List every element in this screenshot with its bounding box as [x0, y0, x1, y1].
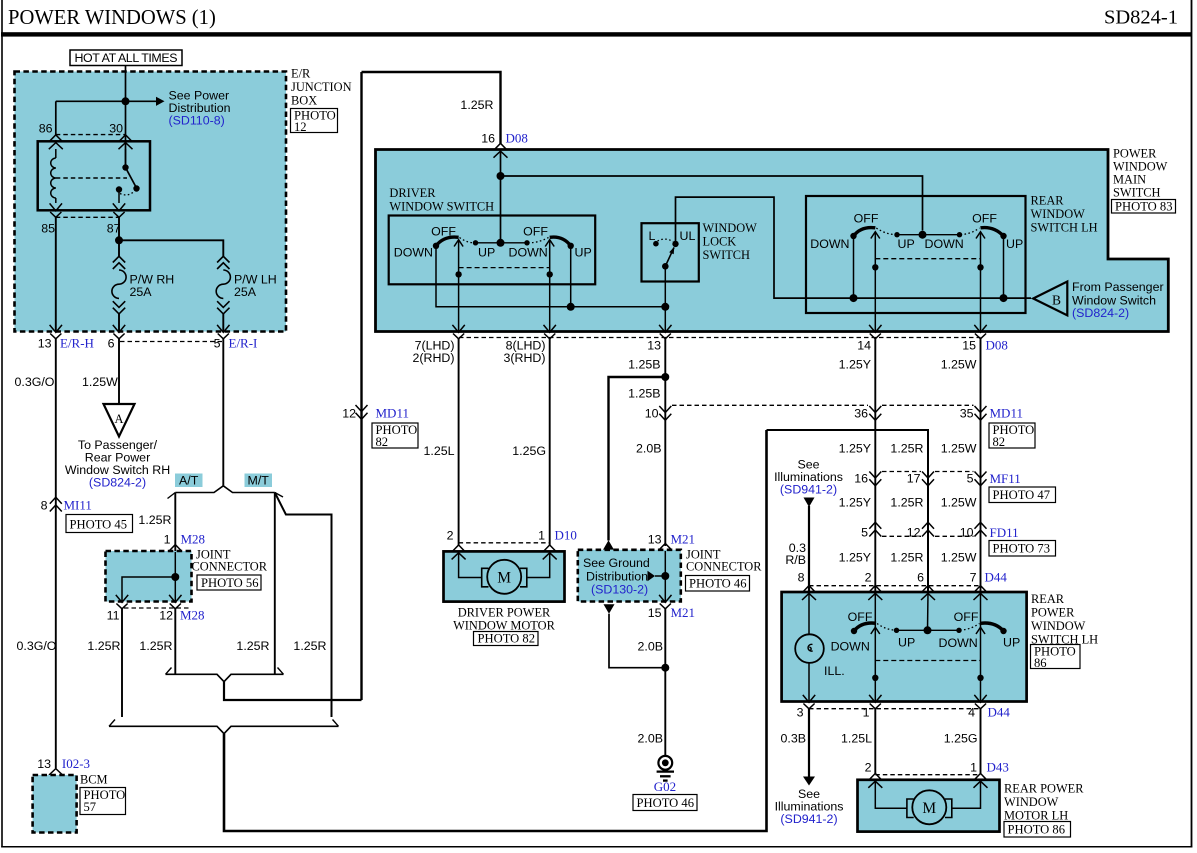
svg-text:2: 2: [447, 529, 454, 543]
wire pin14 column down: [874, 339, 876, 592]
node rear feed: [919, 231, 927, 239]
rear motor pin 1 connector: [974, 773, 988, 787]
driver rocker arrow pin8: [545, 240, 554, 247]
wire into RH fuse: [118, 240, 120, 256]
wire pin6 down to triangle A: [118, 339, 120, 404]
joint connector M21 box (dashed blue): [578, 550, 681, 602]
wire cross link to pin6 column: [767, 430, 929, 592]
dashed connector line main switch pins: [459, 337, 981, 339]
svg-text:6: 6: [917, 571, 924, 585]
svg-text:R/B: R/B: [785, 553, 806, 567]
connector 12 MD11: [356, 405, 368, 419]
driver rocker contact UP: [473, 240, 478, 245]
HOT AT ALL TIMES label box: [70, 50, 182, 66]
svg-text:10: 10: [645, 407, 659, 421]
rear rocker contact UP: [894, 232, 899, 237]
svg-text:E/R-I: E/R-I: [229, 336, 258, 351]
wire M21 pin15 down to ground: [664, 609, 666, 756]
relay lever: [126, 168, 137, 189]
driver rocker right dotted travel: [528, 238, 549, 243]
svg-text:SWITCH: SWITCH: [1113, 186, 1161, 200]
svg-text:8: 8: [798, 571, 805, 585]
svg-text:1.25R: 1.25R: [890, 496, 923, 510]
svg-text:DOWN: DOWN: [810, 237, 849, 251]
fuse P/W RH 25A: [112, 256, 126, 314]
dashed connector line pins 6-5: [120, 341, 222, 343]
svg-text:PHOTO 46: PHOTO 46: [637, 796, 695, 810]
svg-text:WINDOW: WINDOW: [703, 221, 758, 235]
pin 6 connector: [113, 325, 125, 339]
svg-text:7: 7: [970, 571, 977, 585]
wire pin87 down: [118, 217, 120, 241]
lock contact UL: [672, 241, 678, 247]
node fuse split: [115, 236, 123, 244]
svg-text:6: 6: [108, 337, 115, 351]
rear motor wires: [875, 781, 906, 808]
rear power window switch LH box (blue): [782, 592, 1027, 702]
rear rocker arrow pin14: [871, 232, 880, 239]
svg-text:11: 11: [107, 609, 120, 623]
svg-text:CONNECTOR: CONNECTOR: [192, 560, 268, 574]
bus1 hook right: [278, 668, 284, 675]
svg-text:1.25G: 1.25G: [512, 444, 546, 458]
svg-text:12: 12: [907, 526, 921, 540]
svg-text:A/T: A/T: [179, 474, 199, 488]
svg-text:1.25R: 1.25R: [293, 639, 326, 653]
svg-text:86: 86: [1034, 656, 1047, 670]
wire LH fuse to pin 5: [222, 314, 224, 332]
wire pin85 down to pin13: [55, 217, 57, 332]
svg-text:12: 12: [342, 407, 356, 421]
svg-text:JUNCTION: JUNCTION: [291, 80, 352, 94]
wire feed across to rear rocker: [501, 176, 923, 231]
svg-text:1.25W: 1.25W: [941, 442, 977, 456]
M28 internal node: [171, 573, 179, 581]
driver rocker left lever: [436, 237, 459, 246]
rear switch pin 4 connector: [974, 695, 986, 709]
svg-text:10: 10: [960, 526, 974, 540]
wire M/T branch vertical: [274, 493, 276, 675]
svg-text:1.25Y: 1.25Y: [839, 496, 871, 510]
rear motor brackets: [907, 799, 914, 818]
rear rocker arrow pin15: [976, 232, 985, 239]
svg-text:LOCK: LOCK: [703, 235, 737, 249]
svg-text:D08: D08: [506, 131, 528, 146]
svg-text:1.25G: 1.25G: [944, 732, 978, 746]
dashed connector line D10: [459, 542, 550, 544]
svg-text:A: A: [115, 412, 124, 426]
relay internal dashed link: [56, 177, 127, 179]
triangle B from passenger window switch: [1033, 282, 1067, 316]
svg-text:1.25R: 1.25R: [460, 98, 493, 112]
M28 internal wire: [174, 552, 176, 602]
svg-text:PHOTO 73: PHOTO 73: [993, 542, 1051, 556]
page bottom border: [1, 846, 1192, 848]
svg-text:M21: M21: [671, 605, 696, 620]
svg-text:1: 1: [863, 706, 870, 720]
svg-text:G02: G02: [654, 779, 676, 794]
rear rocker dashed link: [875, 258, 980, 260]
svg-text:15: 15: [648, 606, 662, 620]
svg-text:25A: 25A: [234, 285, 257, 299]
svg-text:UP: UP: [1006, 237, 1023, 251]
rear switch pin 8 connector: [802, 586, 816, 600]
photo 46 box G02: [633, 795, 697, 811]
svg-text:2(RHD): 2(RHD): [413, 351, 455, 365]
wire from ground distribution to ground net: [609, 614, 665, 668]
svg-text:PHOTO 82: PHOTO 82: [478, 632, 536, 646]
dashed connector line D43: [875, 774, 980, 776]
wire branch to ground distribution: [609, 377, 666, 541]
svg-text:PHOTO 86: PHOTO 86: [1008, 823, 1066, 837]
svg-text:82: 82: [993, 435, 1006, 449]
node pin8 wire: [547, 271, 553, 277]
fuse P/W LH 25A: [216, 256, 230, 314]
svg-text:UP: UP: [898, 636, 915, 650]
wire pin7 to driver motor: [458, 339, 460, 545]
svg-text:17: 17: [907, 472, 921, 486]
node hot junction: [122, 97, 130, 105]
svg-text:3: 3: [797, 706, 804, 720]
rear2 contact bar: [897, 629, 960, 631]
rear2 rocker left lever: [854, 623, 876, 631]
dashed connector line pins 85-87: [56, 216, 119, 218]
svg-text:L: L: [649, 229, 656, 243]
rear switch pin 7 connector: [974, 586, 988, 600]
svg-text:3(RHD): 3(RHD): [504, 351, 546, 365]
svg-text:OFF: OFF: [972, 212, 997, 226]
driver motor box (blue): [444, 551, 565, 601]
svg-text:E/R-H: E/R-H: [60, 336, 94, 351]
connector 36: [869, 406, 881, 420]
rear2 rocker left contact: [851, 628, 857, 634]
rear rocker left lever: [854, 228, 876, 236]
lamp ILL wire lower: [808, 663, 810, 702]
svg-text:M/T: M/T: [248, 474, 270, 488]
driver window switch inner box: [389, 216, 596, 285]
svg-text:WINDOW MOTOR: WINDOW MOTOR: [453, 619, 555, 633]
main switch pin 8 connector: [544, 325, 556, 339]
rear2 arrow pin1: [871, 627, 880, 634]
svg-text:M28: M28: [181, 532, 206, 547]
svg-text:1.25B: 1.25B: [628, 358, 660, 372]
E/R junction box (dashed blue): [15, 72, 287, 332]
driver motor wires: [459, 553, 482, 578]
M21 internal node: [661, 572, 669, 580]
svg-text:PHOTO 83: PHOTO 83: [1115, 199, 1173, 213]
wire pin2 to pin1: [874, 593, 876, 702]
svg-text:(SD824-2): (SD824-2): [1072, 306, 1129, 320]
svg-text:OFF: OFF: [954, 610, 979, 624]
rear window switch LH inner box: [806, 196, 1026, 313]
lamp ILL wire upper: [808, 593, 810, 635]
svg-text:FD11: FD11: [990, 525, 1019, 540]
svg-text:4: 4: [968, 706, 975, 720]
photo 83 box: [1112, 200, 1176, 214]
svg-text:B: B: [1052, 293, 1061, 308]
wire pin7 to pin4: [980, 593, 982, 702]
node rail rear right: [1000, 294, 1008, 302]
svg-text:WINDOW: WINDOW: [1031, 207, 1086, 221]
connector 13 M21: [658, 543, 672, 557]
svg-text:MOTOR LH: MOTOR LH: [1004, 809, 1068, 823]
dashed connector line D44 top: [809, 585, 981, 587]
node rail rear left: [850, 294, 858, 302]
svg-text:1.25R: 1.25R: [139, 639, 172, 653]
label A/T highlighted: [175, 474, 203, 488]
node rear2 right wire: [977, 675, 983, 681]
svg-text:2.0B: 2.0B: [638, 640, 664, 654]
photo 45 box: [66, 515, 133, 533]
dashed row FD11: [882, 535, 921, 537]
wire pin1 rear to motor: [874, 709, 876, 774]
svg-text:1.25W: 1.25W: [941, 358, 977, 372]
driver rocker right contact: [568, 243, 574, 249]
relay coil: [55, 149, 57, 158]
svg-text:13: 13: [37, 757, 51, 771]
svg-text:From Passenger: From Passenger: [1072, 280, 1164, 294]
svg-text:1.25Y: 1.25Y: [839, 358, 871, 372]
ground symbol G02: [658, 756, 672, 770]
svg-text:DOWN: DOWN: [509, 246, 548, 260]
photo 46 box M21: [686, 576, 750, 592]
svg-text:POWER: POWER: [1113, 147, 1157, 161]
svg-text:1.25L: 1.25L: [423, 444, 454, 458]
wire coil feed down: [55, 101, 57, 135]
svg-text:M28: M28: [180, 608, 205, 623]
wire feed from MD11 riser across top: [362, 72, 501, 144]
svg-text:POWER WINDOWS (1): POWER WINDOWS (1): [8, 7, 216, 29]
rear switch pin 2 connector: [868, 586, 882, 600]
arrow to wire in M21: [648, 571, 656, 581]
wire pin14 down: [874, 232, 876, 332]
photo 73 box: [989, 541, 1056, 557]
svg-text:0.3B: 0.3B: [781, 732, 807, 746]
BCM box (dashed blue): [33, 775, 77, 833]
fork tick right: [275, 493, 283, 498]
fork tick left: [168, 493, 176, 499]
power window relay box: [38, 141, 150, 210]
rear rocker right dotted travel: [961, 228, 980, 235]
svg-text:30: 30: [109, 122, 123, 136]
svg-text:REAR: REAR: [1031, 592, 1065, 606]
svg-text:MF11: MF11: [990, 471, 1021, 486]
wire bus2 down and across bottom: [224, 430, 767, 831]
motor pin 2 connector: [452, 545, 466, 559]
node main feed split: [497, 172, 505, 180]
wire driver DOWN contact to rail: [436, 246, 665, 307]
svg-text:2: 2: [865, 761, 872, 775]
wire driver UP contact to rail: [570, 246, 572, 307]
joint connector M28 box (dashed blue): [106, 551, 192, 602]
rear rocker right contact: [1000, 233, 1006, 239]
dashed connector line pins 86-30: [56, 134, 126, 136]
header thick rule: [1, 32, 1192, 36]
svg-text:OFF: OFF: [854, 212, 879, 226]
svg-text:MD11: MD11: [990, 406, 1023, 421]
dashed row MF11: [882, 471, 921, 473]
node rail driver UP: [567, 303, 575, 311]
driver motor brackets: [482, 568, 489, 587]
svg-text:REAR: REAR: [1031, 194, 1065, 208]
svg-text:PHOTO 56: PHOTO 56: [201, 576, 259, 590]
lamp ILL circle: [795, 634, 824, 663]
svg-text:1.25R: 1.25R: [236, 639, 269, 653]
relay pin 86 connector: [49, 135, 63, 149]
rear switch pin 3 connector: [803, 695, 815, 709]
svg-text:I02-3: I02-3: [62, 756, 90, 771]
connector 5 MF11: [975, 472, 987, 486]
driver rocker arrow pin7: [454, 240, 463, 247]
rear switch pin 1 connector: [869, 695, 881, 709]
svg-text:BOX: BOX: [291, 94, 317, 108]
svg-text:PHOTO 45: PHOTO 45: [70, 518, 128, 532]
svg-text:86: 86: [39, 122, 53, 136]
svg-text:UL: UL: [680, 229, 696, 243]
rear2 rocker right contact: [1000, 628, 1006, 634]
node pin15 wire: [977, 264, 983, 270]
driver rocker contact DOWN: [524, 240, 529, 245]
wire 87 contact to pin: [118, 190, 120, 204]
svg-text:CONNECTOR: CONNECTOR: [686, 560, 762, 574]
rear rocker contact DOWN: [957, 232, 962, 237]
node pin14 wire: [872, 264, 878, 270]
driver rocker left dotted travel: [460, 238, 475, 243]
svg-text:M: M: [497, 570, 511, 587]
main switch pin 15 connector: [974, 325, 986, 339]
svg-text:E/R: E/R: [291, 67, 311, 81]
svg-text:36: 36: [854, 407, 868, 421]
pin 16 D08 connector: [494, 143, 508, 157]
lamp filament: [808, 644, 813, 651]
power window main switch box (blue): [376, 150, 1169, 332]
svg-text:1.25W: 1.25W: [941, 551, 977, 565]
svg-text:BCM: BCM: [80, 773, 108, 787]
wire M28 pin11 down: [121, 609, 123, 717]
svg-text:1.25L: 1.25L: [841, 732, 872, 746]
node driver feed: [497, 239, 505, 247]
wire rear DOWN contact to rail: [853, 236, 855, 298]
page left border: [1, 0, 3, 848]
arrow to power distribution: [156, 97, 165, 106]
driver rocker left contact: [433, 243, 439, 249]
label M/T highlighted: [245, 474, 273, 488]
connector 8 MI11: [50, 497, 62, 511]
M28 pin 12 connector: [169, 595, 181, 609]
dashed connector row 10-36-35: [672, 404, 868, 406]
wire A/T branch down to M28: [174, 493, 176, 552]
svg-text:SWITCH LH: SWITCH LH: [1031, 221, 1098, 235]
svg-text:5: 5: [214, 337, 221, 351]
pin 13 E/R-H connector: [50, 325, 62, 339]
rear2 rocker right dotted travel: [960, 624, 980, 631]
svg-text:UP: UP: [1003, 636, 1020, 650]
photo 86 box switch: [1031, 645, 1081, 669]
svg-text:Distribution: Distribution: [586, 570, 648, 584]
motor pin 1 connector: [543, 545, 557, 559]
relay contact node 87: [116, 186, 122, 192]
bus2 hook left: [109, 720, 115, 727]
wire illuminations to pin 8: [808, 506, 810, 592]
svg-text:WINDOW SWITCH: WINDOW SWITCH: [389, 200, 494, 214]
relay pin 87 connector: [113, 203, 125, 217]
main switch pin 13 connector: [659, 325, 671, 339]
wire pin7 down: [458, 240, 460, 332]
dashed connector line D44 bottom: [809, 708, 981, 710]
rear rocker left contact: [850, 233, 856, 239]
svg-text:DOWN: DOWN: [939, 636, 978, 650]
triangle from ground distribution: [604, 604, 615, 613]
rear2 arrow pin4: [976, 627, 985, 634]
rear2 rocker right lever: [981, 623, 1004, 631]
wire MD11 riser: [360, 72, 362, 700]
BCM fork connector 13 I02-3: [49, 769, 63, 775]
M21 pin 15 connector: [659, 595, 671, 609]
node rail lock switch: [661, 303, 669, 311]
rear2 dashed link: [875, 660, 980, 662]
svg-text:WINDOW: WINDOW: [1004, 795, 1059, 809]
merge bus 1: [166, 674, 284, 681]
wire pin13 main down: [664, 339, 666, 546]
wire contact bar left: [476, 242, 528, 244]
wire 0.3G/O pin13 down to BCM: [55, 339, 57, 769]
svg-text:SWITCH: SWITCH: [703, 248, 751, 262]
connector 10 FD11: [975, 522, 987, 536]
wire RH fuse to pin 6: [118, 314, 120, 332]
rear motor circle M: [912, 790, 946, 824]
photo 82 box right: [989, 423, 1035, 448]
wire to see power distribution arrow: [56, 100, 156, 102]
wire pin16 down to driver rocker centre: [500, 151, 502, 243]
svg-text:PHOTO 47: PHOTO 47: [993, 488, 1051, 502]
svg-text:SD824-1: SD824-1: [1104, 7, 1178, 29]
photo 82 box motor: [474, 632, 539, 646]
wire M/T diagonal branch: [275, 493, 332, 718]
svg-text:1.25R: 1.25R: [87, 639, 120, 653]
wire pin8 to driver motor: [549, 339, 551, 545]
main switch pin 14 connector: [869, 325, 881, 339]
connector 1 M28: [168, 545, 182, 559]
wire pin15 down: [980, 232, 982, 332]
relay pin 30 connector: [119, 135, 133, 149]
svg-text:5: 5: [967, 472, 974, 486]
connector 10: [659, 406, 671, 420]
wire pin4 rear to motor: [980, 709, 982, 774]
wire hot feed into box: [125, 66, 127, 167]
svg-text:16: 16: [481, 132, 495, 146]
svg-text:1.25Y: 1.25Y: [839, 551, 871, 565]
svg-text:12: 12: [159, 609, 173, 623]
svg-text:ILL.: ILL.: [824, 664, 845, 678]
rear2 rocker left dotted travel: [877, 624, 895, 631]
svg-text:15: 15: [962, 339, 976, 353]
lock dotted travel: [658, 239, 674, 241]
svg-text:DRIVER: DRIVER: [389, 186, 436, 200]
photo 47 box: [989, 487, 1056, 503]
svg-text:8: 8: [41, 499, 48, 513]
svg-text:D44: D44: [985, 570, 1008, 585]
M28 pin 11 connector: [116, 595, 128, 609]
svg-text:MI11: MI11: [64, 498, 92, 513]
svg-text:OFF: OFF: [523, 225, 548, 239]
bus2 hook right: [333, 720, 339, 727]
connector 5 FD11: [869, 522, 881, 536]
photo 86 box motor: [1004, 822, 1071, 838]
wire lock common down to rail: [664, 266, 666, 331]
arrow from illuminations: [804, 498, 815, 508]
svg-text:14: 14: [857, 339, 871, 353]
wire contact bar rear: [897, 234, 960, 236]
